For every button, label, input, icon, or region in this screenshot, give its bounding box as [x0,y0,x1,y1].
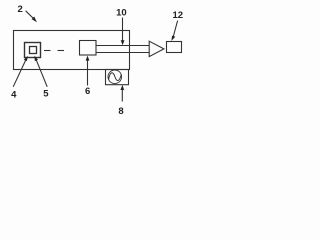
sensor outer square 4 [25,43,41,58]
svg-text:12: 12 [173,10,184,21]
leader arrow from label 2 [26,11,37,22]
sine wave [109,73,122,81]
sensor inner square 5 [30,47,37,54]
leader arrow 6 [86,56,90,86]
oscillator box 8 [106,70,129,85]
signal path upper line [96,45,149,47]
svg-text:2: 2 [18,4,23,15]
box 6 (electronics block) [80,41,97,56]
svg-text:4: 4 [11,89,17,100]
svg-text:6: 6 [85,86,90,97]
leader arrow 12 [171,21,177,41]
leader arrow 8 [120,85,124,102]
enclosure box 10 (outer housing) [14,31,130,70]
oscillator circle [108,70,122,84]
svg-text:5: 5 [43,89,49,100]
svg-text:10: 10 [116,7,127,18]
dashed coupling line [44,50,64,52]
open arrowhead (block arrow head) [149,41,164,56]
box 12 (output device) [167,42,182,53]
signal path lower line [96,52,149,54]
svg-text:8: 8 [118,106,123,117]
leader arrow 4 [13,56,28,87]
leader arrow 5 [34,56,47,87]
leader arrow 10 [121,18,125,46]
